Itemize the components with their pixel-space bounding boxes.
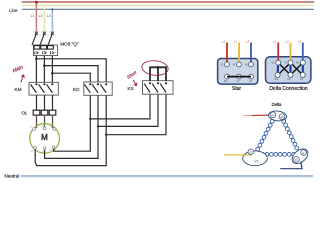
MCB pole3 trip element (48, 46, 54, 50)
KM pole1 contact (35, 83, 37, 85)
star block body (218, 59, 258, 85)
wire MCB out pole1 (35, 56, 37, 83)
svg-text:U1: U1 (271, 113, 275, 117)
svg-text:KD: KD (73, 87, 80, 92)
delta cross link U1-U2 (thin) (279, 64, 289, 74)
wire OL to motor V1 (44, 115, 46, 128)
node L1 tap (35, 1, 38, 4)
delta drop L2 (yellow) (290, 43, 292, 61)
blue lead from V2 (280, 162, 302, 169)
wire motor W2 to KD pole3 / KS pole3 (35, 93, 106, 166)
MCB pole1 I> label (35, 51, 38, 54)
winding U (left side coil) (256, 119, 274, 151)
motor terminal U1 (33, 128, 36, 131)
delta cross link V1-V2 (thin) (292, 64, 302, 74)
delta block body (266, 57, 311, 84)
contactor KM body (29, 82, 58, 95)
motor M circle (30, 124, 60, 154)
wire KM out pole2 (44, 95, 46, 110)
annotation arrow to KS (133, 80, 137, 86)
KD pole1 contact (89, 83, 91, 85)
neutral bus line (21, 175, 313, 177)
node star point (157, 66, 160, 69)
node L3 tap (51, 8, 53, 10)
delta terminal U1 (276, 60, 281, 65)
KS star shorting bar (150, 67, 166, 80)
delta link bar W1-V2 (blue) (302, 63, 304, 75)
neutral shadow line (21, 177, 313, 179)
delta terminal W1 (300, 60, 305, 65)
delta terminal W2 (275, 72, 280, 77)
wire L1 to KD pole3 (36, 59, 106, 82)
contactor KS body (143, 81, 174, 95)
wire OL to motor W1 (52, 115, 54, 128)
svg-text:Delta: Delta (272, 102, 282, 107)
MCB Q breaker blade pole2 (40, 34, 44, 45)
bottom-right vertex oval (289, 146, 310, 166)
delta link bar U1-W2 (blue) (277, 63, 280, 75)
wire KM out pole3 (52, 95, 54, 110)
delta link bar V1-U2 (blue) (289, 63, 291, 75)
KD pole3 contact (105, 83, 107, 85)
terminal x-mark pole2 (43, 32, 46, 35)
wire to KS pole3 (106, 92, 166, 134)
delta terminal V1 (288, 60, 293, 65)
svg-text:V2: V2 (295, 158, 299, 162)
terminal W1 (triangle) (301, 150, 307, 156)
delta drop L3 (blue) (302, 43, 304, 61)
star tiny labels (221, 65, 253, 83)
motor terminal labels (30, 126, 55, 153)
star terminal V2 (249, 74, 254, 79)
terminal U2 (triangle) (248, 149, 254, 155)
wire L3 to KD pole1 (52, 73, 90, 82)
yellow lead to V1 (224, 154, 252, 156)
star drop L2 (yellow) (238, 43, 240, 63)
MCB Q body (33, 45, 57, 56)
delta cross link V1-W2 (black) (279, 64, 290, 74)
node tap to KD pole1 (51, 72, 54, 75)
wire L2 to KD pole2 (44, 66, 98, 82)
terminal x-mark pole1 (35, 32, 38, 35)
svg-text:M: M (41, 133, 48, 142)
line L2 (yellow supply bus) (22, 4, 314, 6)
delta terminal V2 (300, 72, 305, 77)
svg-text:L2: L2 (286, 40, 290, 44)
svg-text:Line: Line (9, 8, 18, 13)
contactor KD body (84, 82, 112, 95)
wire L3 drop (blue) (51, 9, 53, 31)
terminal U1 (triangle) (270, 112, 276, 118)
svg-text:V1: V1 (254, 160, 258, 164)
wire MCB out pole3 (51, 56, 53, 83)
motor terminal V1 (43, 127, 46, 130)
wire L1 drop (red) (35, 2, 37, 32)
KM pole3 contact (51, 83, 53, 85)
MCB Q breaker blade pole3 (48, 34, 52, 45)
motor terminal W1 (53, 128, 56, 131)
line L3 (blue supply bus) (22, 8, 314, 10)
wire to KS pole1 (90, 92, 150, 119)
delta terminal U2 (288, 72, 293, 77)
svg-text:Delta Connection: Delta Connection (269, 86, 308, 92)
MCB pole3 I> label (51, 51, 54, 54)
node KD2-KS2 junction (97, 125, 99, 127)
top vertex oval (268, 110, 287, 122)
MCB pole2 trip element (41, 46, 47, 50)
KS pole2 contact (157, 82, 159, 84)
overload relay OL element2 (41, 110, 48, 115)
wire L2 drop (yellow) (43, 5, 45, 31)
star terminal W1 (249, 62, 254, 67)
svg-text:Star: Star (232, 86, 242, 92)
svg-text:MCB "Q": MCB "Q" (60, 41, 79, 46)
motor terminal W2 (34, 146, 37, 149)
svg-text:KM: KM (15, 87, 22, 92)
wire motor V2 to KD pole1 / KS pole1 (54, 93, 91, 151)
svg-text:L1: L1 (273, 40, 277, 44)
node KD3-KS3 junction (105, 134, 107, 136)
delta drop L1 (red) (277, 43, 279, 61)
svg-text:Neutral: Neutral (5, 173, 20, 178)
svg-text:L3: L3 (47, 14, 51, 18)
star terminal V1 (237, 62, 242, 67)
overload relay OL element1 (33, 110, 40, 115)
star terminal W2 (225, 74, 230, 79)
MCB Q breaker blade pole1 (32, 34, 36, 45)
star drop L3 (blue) (250, 43, 252, 63)
winding W (bottom coil) (261, 153, 296, 157)
MCB pole1 trip element (34, 46, 40, 50)
winding V (right side coil) (282, 119, 299, 150)
terminal V2 (triangle) (294, 156, 300, 162)
star terminal U2 (237, 74, 242, 79)
star drop L1 (red) (226, 43, 228, 63)
svg-text:L2: L2 (39, 14, 43, 18)
svg-text:KS: KS (128, 86, 134, 91)
svg-text:L1: L1 (31, 14, 35, 18)
node tap to KD pole3 (35, 58, 38, 61)
delta tiny labels (272, 63, 304, 82)
KM pole2 contact (43, 83, 45, 85)
wire KM out pole1 (36, 95, 38, 110)
svg-text:OL: OL (22, 111, 28, 116)
delta cross link W1-U2 (black) (292, 64, 302, 74)
star terminal U1 (225, 62, 230, 67)
svg-text:L1: L1 (222, 40, 226, 44)
svg-text:L3: L3 (298, 40, 302, 44)
wire MCB out pole2 (43, 56, 45, 83)
svg-text:L2: L2 (234, 40, 238, 44)
wire OL to motor U1 (36, 115, 38, 128)
wire to KS pole2 (98, 92, 158, 126)
star link bar (227, 76, 251, 78)
MCB pole2 I> label (43, 51, 46, 54)
wire motor U2 to KD pole2 / KS pole2 (45, 93, 98, 159)
line L1 (red supply bus) (22, 1, 314, 3)
KS pole1 contact (149, 82, 151, 84)
svg-text:L3: L3 (246, 40, 250, 44)
KS pole3 contact (165, 82, 167, 84)
terminal x-mark pole3 (51, 32, 54, 35)
bottom-left vertex oval (243, 151, 268, 166)
KD pole2 contact (97, 83, 99, 85)
annotation ellipse around star point (red) (141, 59, 169, 76)
motor terminal U2 (43, 147, 46, 150)
node tap to KD pole2 (43, 64, 46, 67)
red lead to U1 (243, 115, 252, 117)
annotation arrow to KM (21, 75, 25, 83)
overload relay OL element3 (49, 110, 56, 115)
node KD1-KS1 junction (89, 118, 91, 120)
terminal W2 (triangle) (279, 114, 285, 120)
motor terminal V2 (52, 146, 55, 149)
